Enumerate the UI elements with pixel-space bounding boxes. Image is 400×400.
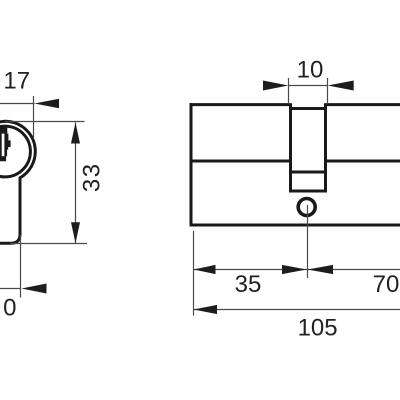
dim 33 up arrow (71, 123, 80, 144)
center extension line (307, 205, 309, 278)
dim 105 arrow (194, 305, 217, 314)
keyhole white slot (2, 134, 5, 157)
dim 35 right arrow (282, 265, 307, 274)
svg-text:10: 10 (297, 57, 324, 84)
cam top line (289, 171, 327, 174)
dim 33 line (75, 123, 77, 244)
svg-text:70: 70 (373, 271, 400, 298)
dim 105 line (194, 309, 400, 311)
cylinder front view inner ring (0, 126, 30, 177)
side view left edge (190, 103, 193, 226)
side view bottom edge (190, 224, 400, 227)
cylinder front view body outline (0, 121, 35, 243)
svg-text:17: 17 (3, 68, 30, 95)
dim 17 line (0, 103, 35, 105)
dim 10 top left arrow (263, 81, 288, 91)
dim 33 top extension line (5, 121, 85, 123)
dim 35/70 left extension line (193, 231, 195, 316)
dim 17 arrow (34, 99, 59, 109)
side view mid line left segment (191, 160, 291, 163)
screw hole (298, 199, 315, 216)
svg-text:33: 33 (79, 162, 106, 192)
svg-text:105: 105 (298, 315, 338, 342)
dim 70 left arrow (308, 265, 334, 274)
dim 35/70 line (194, 269, 400, 271)
dim 10 front extension line (20, 235, 22, 298)
side view top edge right segment (326, 103, 400, 106)
cam slot top groove line (289, 107, 327, 110)
svg-text:35: 35 (235, 271, 262, 298)
dim 10 top line (289, 85, 328, 87)
svg-text:0: 0 (3, 295, 16, 322)
dim 10 top left extension line (288, 78, 290, 104)
dim 33 down arrow (71, 222, 80, 243)
cam slot left line (289, 103, 292, 191)
dim 10 top right arrow (328, 81, 354, 91)
cam slot bottom line (289, 190, 327, 193)
cam slot right line (324, 103, 327, 191)
side view top edge left segment (190, 103, 291, 106)
dim 10 front line (0, 288, 21, 290)
side view mid line right segment (326, 160, 400, 163)
dim 17 extension line (33, 96, 35, 139)
keyhole keyway profile (0, 127, 11, 161)
dim 33 bottom extension line (10, 243, 87, 245)
dim 10 front arrow (22, 284, 47, 294)
dim 10 top right extension line (327, 78, 329, 104)
dim 35 left arrow (194, 265, 216, 274)
